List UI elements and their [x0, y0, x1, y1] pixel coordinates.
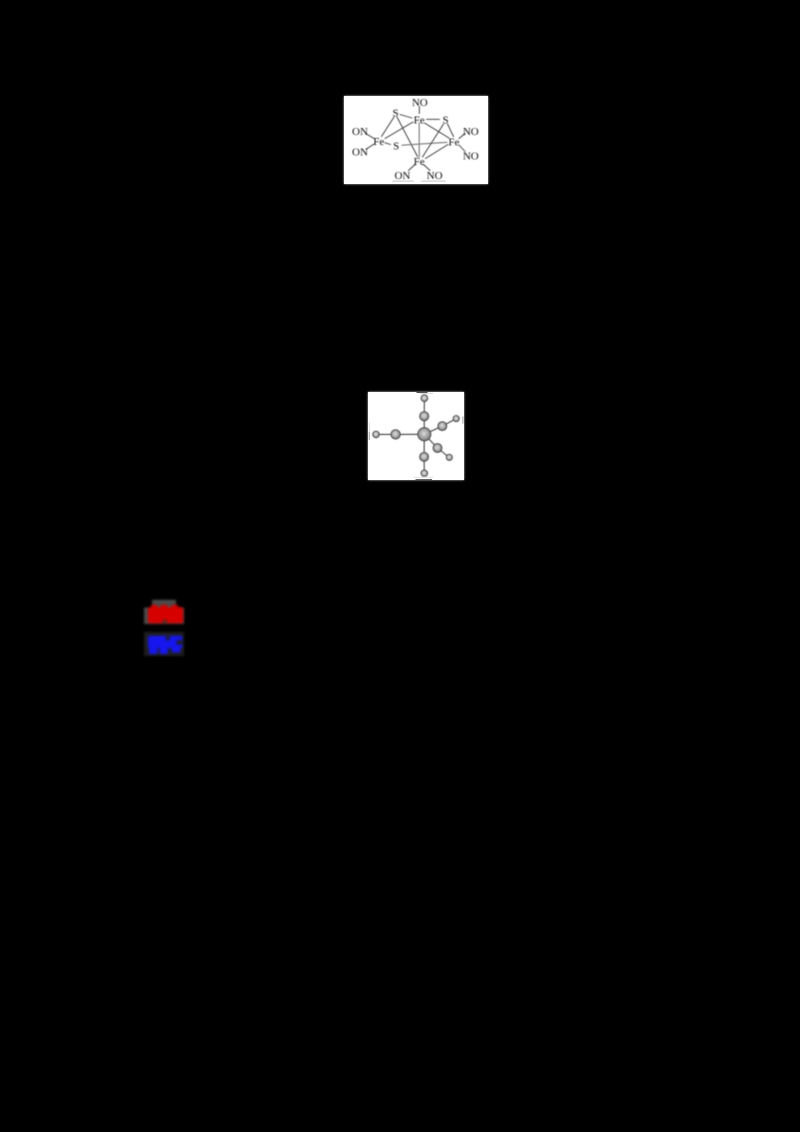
stick center-up — [423, 416, 425, 434]
faint grey edge mark left — [369, 432, 370, 440]
stick up-topsmall — [423, 398, 425, 416]
wire S(tr)-Fe(right) — [448, 124, 454, 137]
wire ON(lt)-Fe(left) — [367, 134, 375, 139]
wire S(tl)-Fe(left) — [382, 117, 395, 137]
wire Fe(top)-Fe(right) — [425, 123, 450, 138]
svg-text:NO: NO — [412, 97, 428, 109]
svg-text:Fe: Fe — [448, 137, 459, 149]
svg-text:NO: NO — [427, 170, 443, 182]
svg-text:NO: NO — [463, 126, 479, 138]
stick downmed-downsmall — [423, 457, 425, 473]
sphere medium up — [420, 412, 429, 421]
wire Fe(bottom)-Fe(right) — [426, 145, 449, 159]
wire NO(top)-Fe(top) — [418, 107, 420, 114]
sphere medium down — [420, 453, 429, 462]
stick lrmed-lrsmall — [438, 448, 450, 457]
figure box 2: ball-and-stick model — [368, 392, 464, 480]
svg-text:S: S — [393, 141, 399, 153]
sphere center large — [418, 428, 431, 441]
faint light line above bottom — [414, 476, 434, 479]
dark box backing — [144, 632, 184, 656]
wire Fe(bottom)-ON(bl) — [409, 165, 416, 171]
sphere small lower-right — [446, 454, 452, 460]
sphere medium upper-right — [438, 422, 447, 431]
wire ON(lb)-Fe(left) — [367, 144, 375, 149]
sphere small upper-right — [453, 416, 459, 422]
wire S(tr)-Fe(bottom) — [423, 124, 444, 157]
wire S(mid)-Fe(right) long — [402, 142, 447, 145]
wire Fe(right)-NO(rt) — [459, 134, 465, 139]
sphere medium left — [391, 430, 400, 439]
sphere small down — [421, 470, 427, 476]
stick center-down — [423, 434, 425, 457]
svg-text:Fe: Fe — [414, 114, 425, 126]
faint grey edge mark left upper — [369, 422, 370, 432]
dark edge mark top — [417, 391, 428, 394]
figure box 1: Fe4S3(NO)7 cluster structure — [344, 96, 488, 184]
svg-text:Fe: Fe — [373, 136, 384, 148]
svg-text:ON: ON — [352, 146, 368, 158]
wire Fe(top)-Fe(bottom) vertical — [418, 123, 420, 157]
grey box backing — [144, 608, 184, 624]
dark edge mark bottom — [416, 478, 433, 481]
blue text blob — [148, 636, 182, 654]
wire S(tl)-Fe(top) — [400, 115, 412, 119]
svg-text:NO: NO — [463, 150, 479, 162]
red text blob — [148, 605, 183, 624]
stick urmed-ursmall — [442, 419, 456, 427]
faint grey mark below top edge — [420, 393, 433, 394]
svg-text:ON: ON — [394, 170, 410, 182]
sphere small top — [421, 395, 428, 402]
red link thumbnail — [144, 599, 185, 625]
faint grey edge mark right — [462, 417, 464, 424]
svg-text:S: S — [393, 108, 399, 120]
wire Fe(top)-S(tr) — [427, 118, 440, 120]
grey tab backing — [152, 600, 176, 608]
wire S(tl)-Fe(bottom) — [397, 117, 418, 157]
stick center-left — [396, 433, 425, 435]
stick leftmed-leftsmall — [376, 433, 396, 435]
wire Fe(bottom)-NO(br) — [424, 165, 431, 171]
svg-text:ON: ON — [352, 126, 368, 138]
wire Fe(right)-NO(rb) — [459, 145, 465, 152]
faint grey bar bottom-left — [392, 181, 413, 182]
stick center-upperright — [424, 426, 442, 434]
sphere medium lower-right — [433, 444, 442, 453]
sphere small left — [373, 431, 379, 437]
wire Fe(top)-Fe(left) — [385, 122, 413, 139]
blue link thumbnail — [144, 632, 185, 657]
wire Fe(left)-S(mid) — [385, 143, 391, 145]
svg-text:S: S — [443, 114, 449, 126]
faint grey bar bottom-right — [421, 181, 445, 182]
stick center-lowerright — [424, 434, 437, 448]
svg-text:Fe: Fe — [414, 156, 425, 168]
